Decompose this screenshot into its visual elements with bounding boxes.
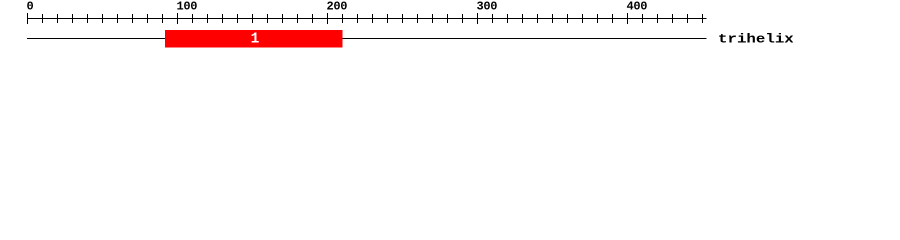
minor tick 130	[222, 14, 224, 23]
minor tick 190	[312, 14, 314, 23]
minor tick 380	[597, 14, 599, 23]
svg-text:200: 200	[327, 0, 348, 14]
minor tick 340	[537, 14, 539, 23]
svg-text:0: 0	[27, 0, 34, 14]
svg-text:trihelix: trihelix	[718, 33, 794, 47]
minor tick 50	[102, 14, 104, 23]
minor tick 280	[447, 14, 449, 23]
minor tick 410	[642, 14, 644, 23]
minor tick 180	[297, 14, 299, 23]
protein backbone line	[27, 38, 707, 40]
minor tick 70	[132, 14, 134, 23]
minor tick 420	[657, 14, 659, 23]
minor tick 230	[372, 14, 374, 23]
minor tick 90	[162, 14, 164, 23]
minor tick 220	[357, 14, 359, 23]
major tick 400	[627, 13, 629, 24]
svg-text:300: 300	[477, 0, 498, 14]
minor tick 170	[282, 14, 284, 23]
minor tick 270	[432, 14, 434, 23]
minor tick 80	[147, 14, 149, 23]
svg-text:400: 400	[627, 0, 648, 14]
minor tick 310	[492, 14, 494, 23]
ruler axis line	[27, 18, 707, 20]
minor tick 350	[552, 14, 554, 23]
minor tick 290	[462, 14, 464, 23]
svg-text:100: 100	[177, 0, 198, 14]
minor tick 10	[42, 14, 44, 23]
minor tick 440	[687, 14, 689, 23]
minor tick 20	[57, 14, 59, 23]
minor tick 390	[612, 14, 614, 23]
svg-text:1: 1	[251, 32, 260, 48]
minor tick 120	[207, 14, 209, 23]
major tick 100	[177, 13, 179, 24]
background	[0, 0, 900, 58]
minor tick 60	[117, 14, 119, 23]
minor tick 160	[267, 14, 269, 23]
minor tick 40	[87, 14, 89, 23]
minor tick 110	[192, 14, 194, 23]
minor tick 370	[582, 14, 584, 23]
major tick 200	[327, 13, 329, 24]
minor tick 150	[252, 14, 254, 23]
major tick 0	[27, 13, 29, 24]
minor tick 320	[507, 14, 509, 23]
minor tick 260	[417, 14, 419, 23]
minor tick 360	[567, 14, 569, 23]
minor tick 250	[402, 14, 404, 23]
minor tick 430	[672, 14, 674, 23]
domain box 1	[165, 30, 343, 48]
major tick 300	[477, 13, 479, 24]
minor tick 140	[237, 14, 239, 23]
minor tick 330	[522, 14, 524, 23]
minor tick 450	[702, 14, 704, 23]
minor tick 210	[342, 14, 344, 23]
minor tick 240	[387, 14, 389, 23]
minor tick 30	[72, 14, 74, 23]
